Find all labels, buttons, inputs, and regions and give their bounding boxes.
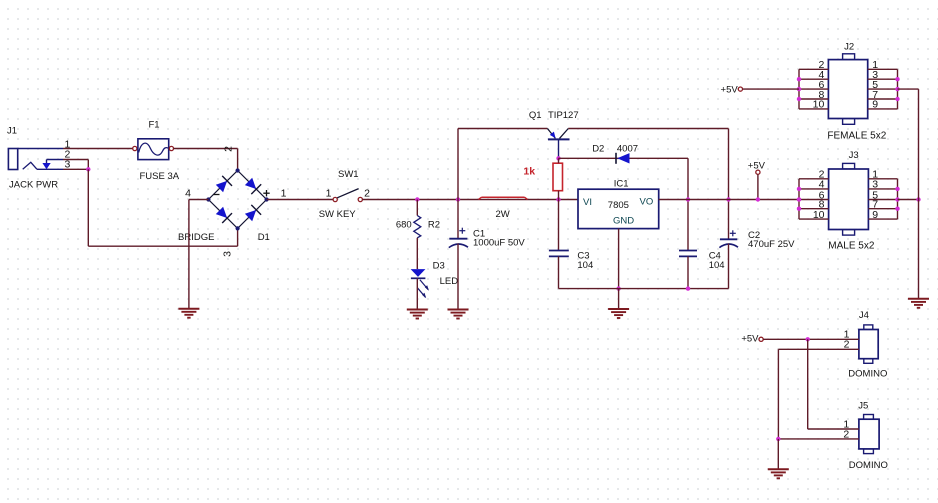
switch SW1 SW KEY [333,189,362,202]
wire to R2 top [416,200,418,216]
wire J2 right pin 5 [868,88,898,90]
svg-text:F1: F1 [149,120,160,131]
capacitor C3 [549,251,569,257]
wire J5 pin1 [808,428,859,430]
svg-text:J5: J5 [858,401,868,412]
svg-text:D1: D1 [258,232,270,243]
transistor Q1 TIP127 [547,129,569,159]
junction J2 left bus row 99.0 [797,97,801,101]
wire J3 right pin 7 [868,208,897,210]
svg-text:2: 2 [223,146,235,152]
fuse F1 [133,139,174,160]
bridge diode D1a (left to top) [216,176,232,192]
junction J3 right bus row 188.9 [895,187,899,191]
wire J5 pin2 [778,438,859,440]
wire row to C3 [558,200,560,251]
wire top rail right of Q1 [568,128,728,130]
junction J2 left bus row 79.2 [797,77,801,81]
junction J2 right bus row 89.1 [895,87,899,91]
wire J3 right bus [897,179,899,219]
wire bridge pin4 down to ground [188,200,190,309]
wire Q1 base to D2/C4 [559,157,689,159]
svg-text:IC1: IC1 [614,179,629,190]
svg-text:FUSE 3A: FUSE 3A [140,171,180,182]
junction right riser at J3 row [916,197,920,201]
wire down from J1 [87,169,89,246]
bridge diode D1c (left to bottom) [216,207,232,223]
junction GND rail at IC1 [616,286,620,290]
regulator IC1 7805 [578,189,659,228]
svg-text:VO: VO [640,196,654,207]
svg-text:VI: VI [583,197,592,208]
wire J2 right pin 3 [868,78,898,80]
wire J2 left pin 10 [799,108,828,110]
junction J5 pin2 / ground [776,437,780,441]
svg-text:680: 680 [396,220,412,231]
svg-text:1: 1 [326,187,332,199]
svg-text:4007: 4007 [617,144,638,155]
capacitor C1 [449,228,468,248]
wire C3 to rail [558,256,560,288]
wire J4 pin2 down [777,349,779,439]
wire J2 left pin 2 [799,68,828,70]
svg-text:470uF 25V: 470uF 25V [748,239,795,250]
svg-text:+5V: +5V [741,333,759,344]
bridge diode D1b (top to right) [245,178,261,194]
svg-text:10: 10 [813,99,825,111]
svg-text:1: 1 [281,187,287,199]
wire down to J5 pin1 [807,339,809,429]
wire J1 pin1 to F1 [63,148,133,150]
wire F1 to bridge top [174,148,238,150]
svg-text:DOMINO: DOMINO [848,368,887,379]
connector J2 FEMALE 5x2 [828,54,867,125]
svg-text:SW KEY: SW KEY [319,209,357,220]
wire node to 1k top [558,158,560,163]
diode D2 [616,153,630,164]
wire J2 left pin 6 [799,88,828,90]
resistor (flat, 2W) on main wire [479,197,528,199]
svg-text:D2: D2 [592,144,604,155]
svg-text:DOMINO: DOMINO [849,460,888,471]
wire J3 right pin 3 [868,188,897,190]
svg-text:9: 9 [872,209,878,221]
svg-text:4: 4 [185,187,191,199]
ground below IC1 [608,309,629,318]
svg-text:JACK PWR: JACK PWR [9,180,58,191]
wire IC1 VO to J3 [659,199,799,201]
svg-text:Q1: Q1 [529,110,542,121]
ground right riser [908,299,929,308]
resistor R2 [414,216,421,238]
junction J2 left bus row 89.1 [797,87,801,91]
wire J1 pin2 down to pin3 [87,160,89,170]
wire C1 to ground [457,244,459,310]
wire row to C2 [728,200,730,240]
wire J3 left pin 6 [799,199,829,201]
polarity - at D1 [214,194,220,196]
junction J3 left bus row 188.9 [797,187,801,191]
wire J2 right pin 7 [868,98,898,100]
junction C4/D2 at row [686,197,690,201]
wire J3 left pin 4 [799,188,829,190]
wire +5V to J2 bus [743,88,800,90]
wire to C1 [457,200,459,239]
junction C2/top-rail at row [726,197,730,201]
svg-text:J4: J4 [859,310,869,321]
wire J2 left pin 4 [799,78,828,80]
wire IC1 GND pin down [618,229,620,289]
bridge rectifier D1 [206,168,268,230]
svg-text:J1: J1 [7,126,17,137]
resistor 1k [553,163,563,191]
wire J5 pin2 to ground [777,439,779,469]
connector J3 MALE 5x2 [829,163,869,235]
ground below J5 [768,469,789,478]
wire +5V to J4 pin1 [763,338,859,340]
wire C2 to rail end [728,244,730,289]
bridge diode D1d (bottom to right) [245,205,261,221]
junction J2 right bus row 99.0 [895,97,899,101]
svg-text:7805: 7805 [608,200,629,211]
wire D3 to ground [416,278,418,309]
wire J3 bus to right riser [898,199,919,201]
svg-text:TIP127: TIP127 [548,110,579,121]
wire J1 pin2 right [63,159,88,161]
connector J4 DOMINO [859,325,878,363]
svg-text:104: 104 [577,260,593,271]
svg-text:MALE 5x2: MALE 5x2 [828,240,875,251]
connector J5 DOMINO [859,415,879,454]
wire +5V flag stem [757,174,759,199]
svg-text:BRIDGE: BRIDGE [178,232,214,243]
svg-text:R2: R2 [428,220,440,231]
polarity + at D1 [263,190,269,196]
svg-text:104: 104 [709,260,725,271]
wire down to bridge pin2 [237,149,239,171]
wire J4 pin2 left [778,348,859,350]
wire J2 left bus [798,69,800,109]
junction +5V at row [756,197,760,201]
wire C4 to rail [687,256,689,288]
wire D2 down to output row [687,158,689,199]
svg-text:2W: 2W [496,209,510,220]
junction J3 left bus row 208.7 [797,207,801,211]
wire R2 to D3 [416,238,418,269]
svg-text:2: 2 [364,187,370,199]
junction Q1 base node [556,156,560,160]
junction 1k / C3 branch [556,197,560,201]
svg-text:FEMALE 5x2: FEMALE 5x2 [827,131,886,142]
wire 1k bottom to row [558,191,560,200]
ground below bridge [178,309,199,318]
wire bottom run to bridge [88,245,237,247]
svg-text:3: 3 [222,251,234,257]
wire J2 left pin 8 [799,98,828,100]
power flag +5V (main rail) [756,170,760,174]
wire bridge pin1 to SW1 [267,199,334,201]
wire J3 left bus [798,179,800,219]
wire bottom rail [559,288,729,290]
svg-text:J2: J2 [844,42,854,53]
junction J4 pin1 branch [806,337,810,341]
connector J1 JACK PWR [8,149,63,170]
junction R2 branch [415,197,419,201]
wire bridge pin4 left [189,199,209,201]
capacitor C2 [719,230,738,247]
wire top rail down to output row [728,129,730,200]
junction J3 right bus row 208.7 [895,207,899,211]
junction J1 pins 2-3 [86,167,90,171]
wire up to top rail [457,129,459,200]
wire to ground below IC1 [618,289,620,309]
wire J3 right pin 9 [868,218,897,220]
svg-text:LED: LED [440,276,459,287]
junction J2 right bus row 79.2 [895,77,899,81]
wire J3 left pin 10 [799,218,829,220]
ground below D3 [407,310,428,319]
wire J2 right bus [897,69,899,109]
capacitor C4 [679,251,697,257]
wire J3 left pin 2 [799,178,829,180]
svg-text:SW1: SW1 [338,169,359,180]
wire top rail left of Q1 [458,128,547,130]
svg-text:+5V: +5V [721,85,739,96]
junction row at J3 bus [797,197,801,201]
svg-text:J3: J3 [849,150,859,161]
svg-text:10: 10 [813,209,825,221]
wire J1 pin3 right [63,168,88,170]
wire J2 bus to right riser [898,88,919,90]
svg-text:1000uF 50V: 1000uF 50V [473,238,525,249]
junction C4 at rail [686,286,690,290]
LED D3 [411,269,429,298]
wire J3 right pin 1 [868,178,897,180]
svg-text:1k: 1k [523,165,535,177]
wire J3 right pin 5 [868,199,897,201]
ground below C1 [448,310,469,319]
power flag +5V (J4) [759,337,763,341]
junction J3 right bus row 199.5 [895,197,899,201]
wire SW1 to IC1 VI [362,199,578,201]
svg-text:9: 9 [872,99,878,111]
svg-text:D3: D3 [433,260,445,271]
junction J3 left bus row 199.5 [797,197,801,201]
wire up to bridge pin3 [237,228,239,246]
svg-text:GND: GND [613,216,634,227]
wire row to C4 [687,200,689,251]
wire J2 right pin 9 [868,108,898,110]
wire J3 left pin 8 [799,208,829,210]
wire J2 right pin 1 [868,68,898,70]
svg-text:+5V: +5V [748,161,766,172]
power flag +5V (J2) [738,87,742,91]
wire right riser to ground [918,89,920,299]
junction C1 / top-wire branch [456,197,460,201]
